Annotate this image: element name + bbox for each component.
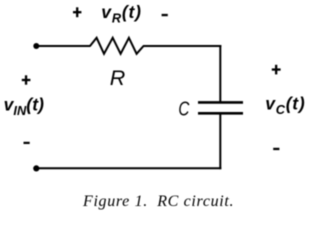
label: minus sign above resistor right (v_R polarity -) bbox=[162, 14, 168, 16]
label: plus sign left (v_IN polarity +) bbox=[22, 75, 31, 84]
node: input positive terminal dot bbox=[33, 43, 39, 49]
wire: bottom return wire bbox=[36, 167, 221, 169]
svg-text:vR(t): vR(t) bbox=[101, 2, 141, 26]
svg-text:vIN(t): vIN(t) bbox=[4, 95, 44, 119]
label: plus sign right (v_C polarity +) bbox=[272, 65, 281, 75]
label: minus sign left (v_IN polarity -) bbox=[24, 142, 30, 144]
svg-text:Figure 1. RC circuit.: Figure 1. RC circuit. bbox=[82, 193, 234, 210]
wire: top-left lead from terminal to resistor bbox=[36, 45, 90, 47]
label: plus sign above resistor (v_R polarity +) bbox=[73, 7, 81, 17]
node: input negative terminal dot bbox=[33, 165, 39, 171]
svg-text:vC(t): vC(t) bbox=[265, 93, 305, 117]
wire: capacitor bottom plate down to bottom wire bbox=[219, 115, 221, 170]
capacitor C plates bbox=[198, 102, 243, 113]
svg-text:C: C bbox=[178, 98, 189, 120]
resistor R bbox=[90, 38, 144, 54]
wire: right vertical from corner down to capacitor top plate bbox=[219, 45, 221, 102]
wire: resistor to top-right corner bbox=[143, 45, 221, 47]
svg-text:R: R bbox=[110, 66, 126, 90]
label: minus sign right (v_C polarity -) bbox=[273, 148, 279, 150]
